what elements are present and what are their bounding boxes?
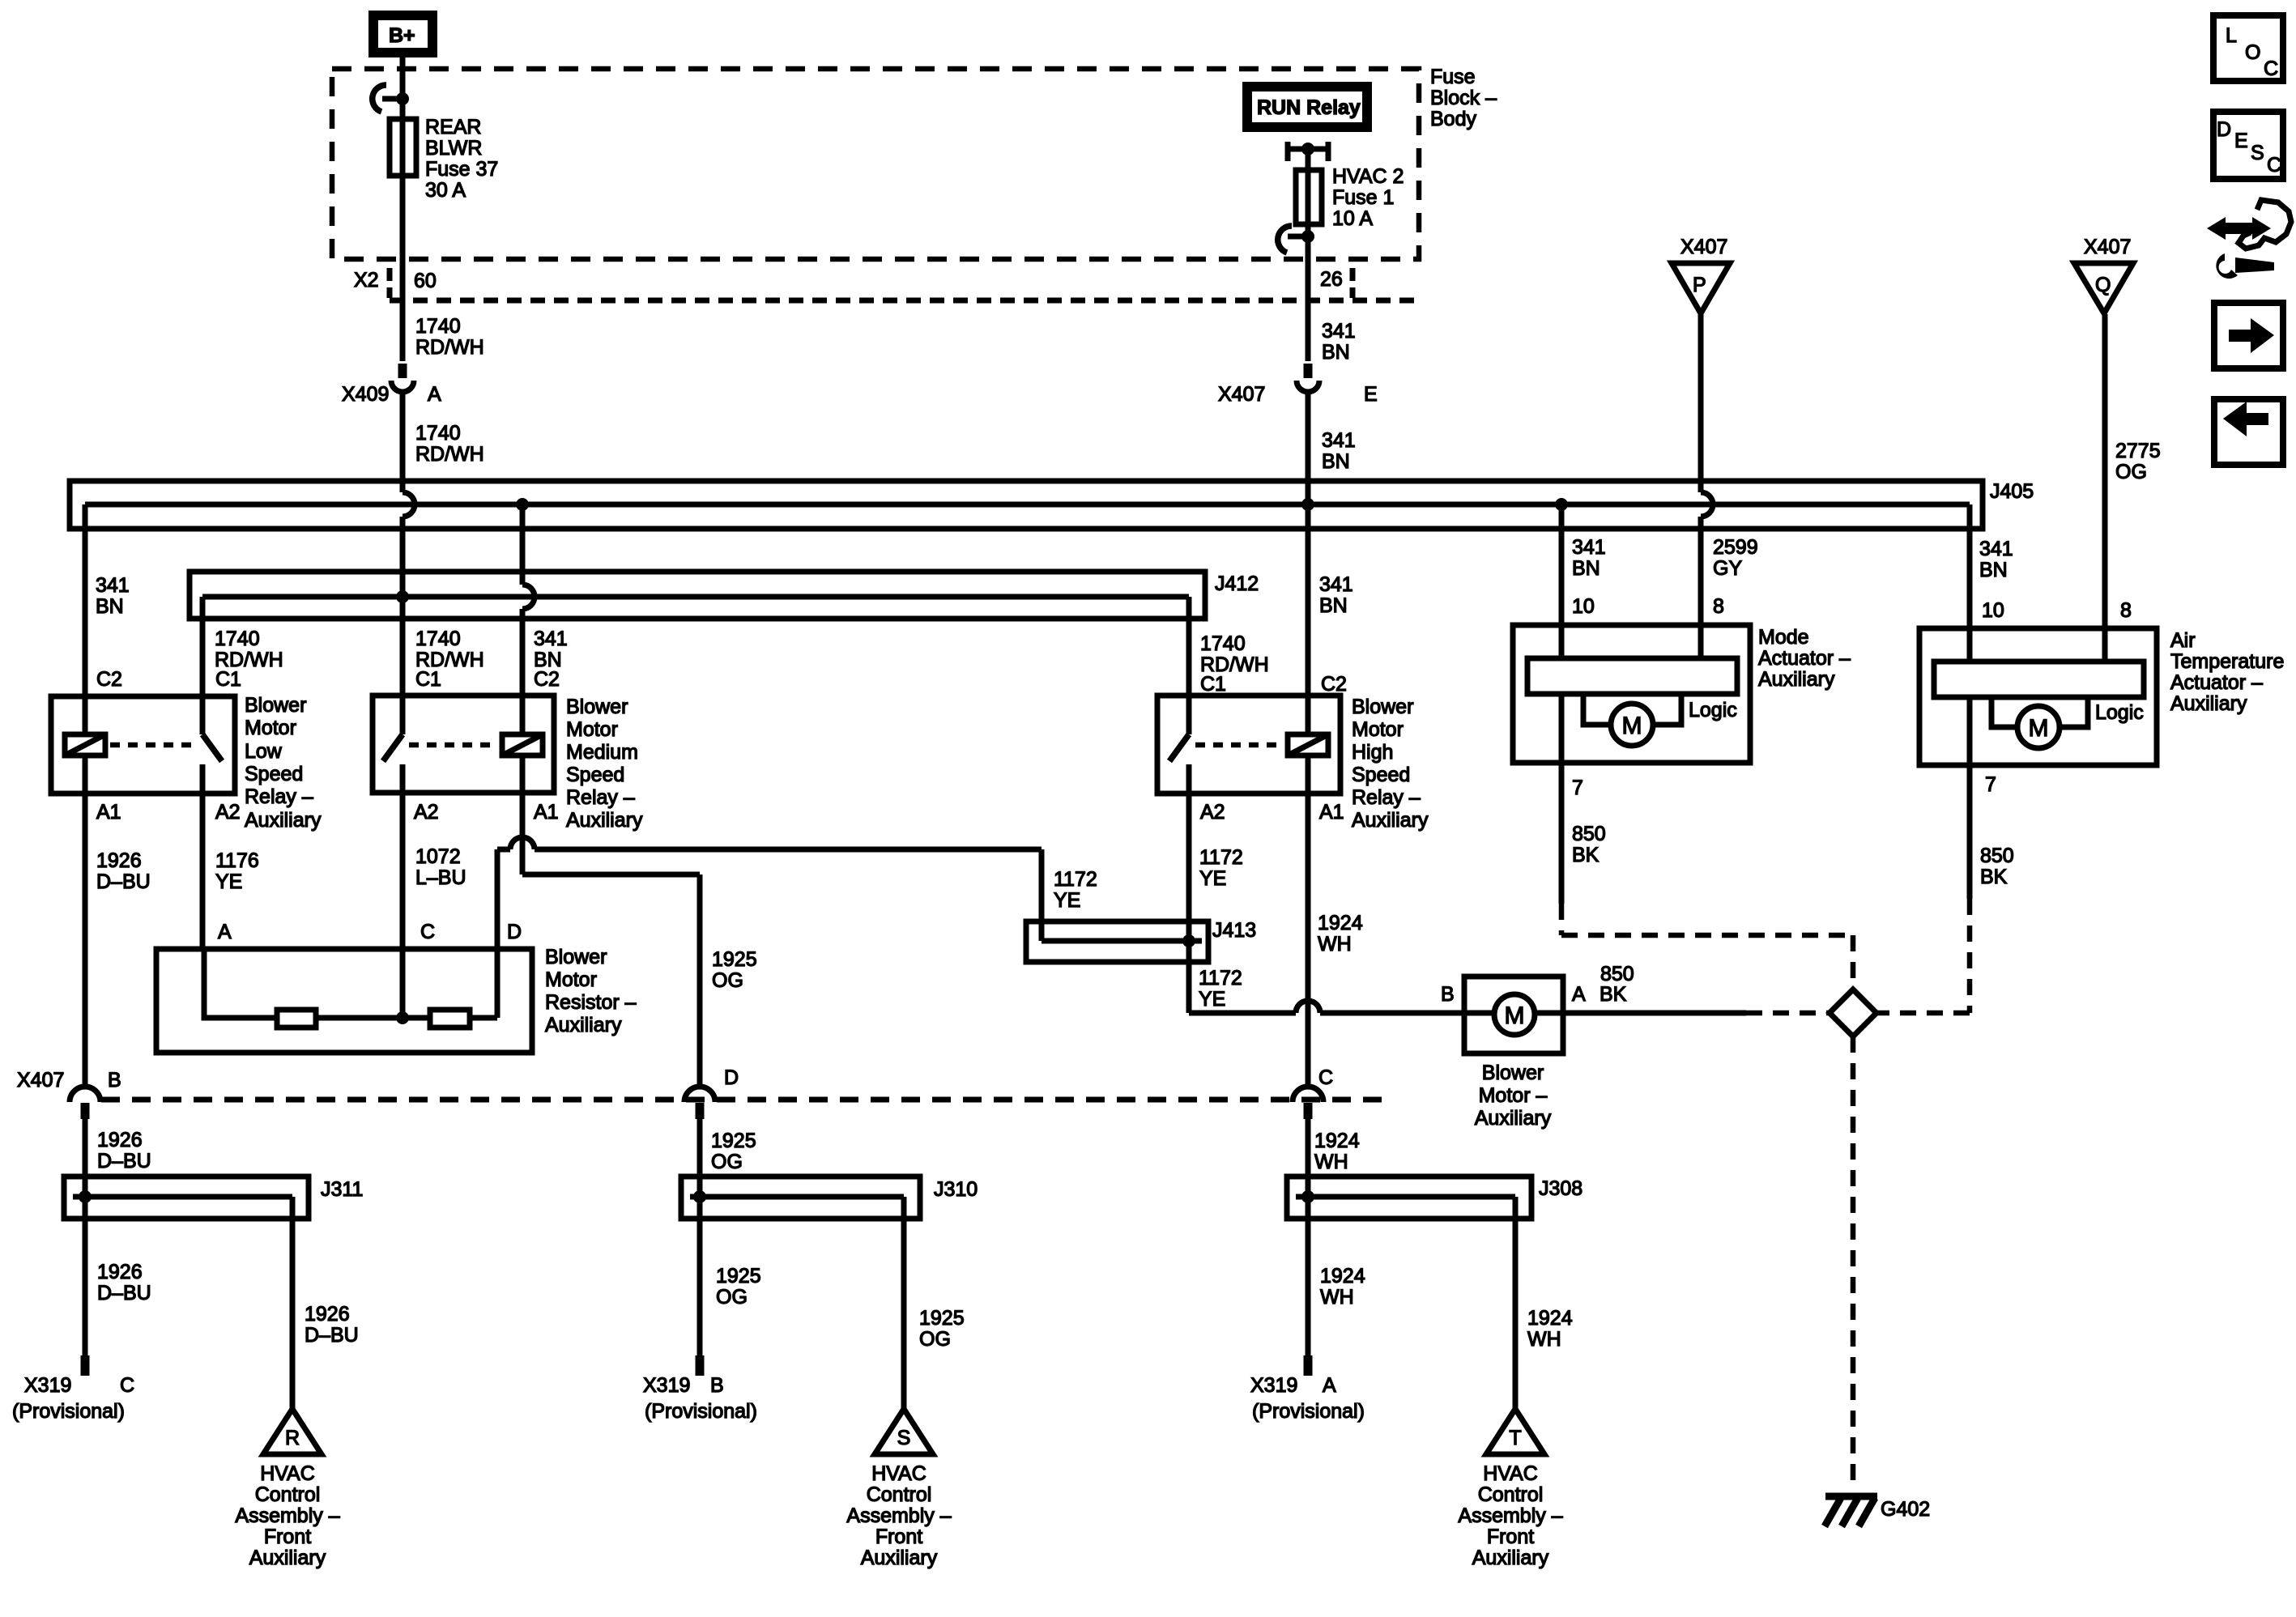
svg-text:C2: C2 xyxy=(1321,673,1347,696)
svg-text:A2: A2 xyxy=(414,801,439,823)
svg-text:Motor: Motor xyxy=(545,968,597,991)
svg-text:M: M xyxy=(2029,715,2049,742)
svg-text:J308: J308 xyxy=(1539,1177,1582,1200)
svg-text:Fuse 37: Fuse 37 xyxy=(425,158,498,181)
svg-text:J310: J310 xyxy=(934,1178,978,1201)
svg-text:Assembly –: Assembly – xyxy=(846,1504,951,1527)
svg-text:C: C xyxy=(420,921,435,943)
svg-text:RD/WH: RD/WH xyxy=(415,443,484,466)
svg-text:RD/WH: RD/WH xyxy=(415,336,484,359)
svg-text:B: B xyxy=(710,1374,724,1397)
svg-text:341: 341 xyxy=(1979,538,2013,560)
svg-text:M: M xyxy=(1505,1002,1525,1029)
svg-text:341: 341 xyxy=(1322,320,1356,343)
svg-text:341: 341 xyxy=(1572,536,1606,559)
svg-text:C: C xyxy=(120,1374,134,1397)
svg-text:B: B xyxy=(1441,983,1455,1006)
svg-text:Front: Front xyxy=(264,1526,311,1548)
svg-text:D: D xyxy=(724,1066,739,1089)
svg-text:1072: 1072 xyxy=(415,845,461,868)
svg-text:8: 8 xyxy=(1713,595,1724,618)
svg-text:Resistor –: Resistor – xyxy=(545,991,637,1014)
svg-text:R: R xyxy=(285,1427,300,1449)
svg-text:X409: X409 xyxy=(342,383,389,406)
svg-text:C1: C1 xyxy=(215,668,241,691)
svg-text:C1: C1 xyxy=(1200,673,1226,696)
svg-text:Temperature: Temperature xyxy=(2170,650,2284,673)
svg-text:S: S xyxy=(897,1427,911,1449)
svg-text:10 A: 10 A xyxy=(1332,207,1373,230)
svg-text:P: P xyxy=(1693,274,1706,296)
svg-text:O: O xyxy=(2245,41,2260,64)
svg-text:HVAC: HVAC xyxy=(1483,1462,1538,1485)
svg-text:YE: YE xyxy=(1054,889,1080,912)
svg-text:10: 10 xyxy=(1572,595,1595,618)
svg-text:850: 850 xyxy=(1980,845,2014,867)
svg-text:BN: BN xyxy=(1979,559,2008,581)
svg-text:C2: C2 xyxy=(96,668,122,691)
svg-text:341: 341 xyxy=(96,574,130,597)
svg-text:Blower: Blower xyxy=(1482,1062,1544,1084)
svg-text:8: 8 xyxy=(2120,599,2132,622)
svg-text:C2: C2 xyxy=(534,668,560,691)
svg-text:BN: BN xyxy=(1322,341,1350,364)
svg-text:A1: A1 xyxy=(534,801,559,823)
svg-text:Assembly –: Assembly – xyxy=(1458,1504,1562,1527)
svg-text:Assembly –: Assembly – xyxy=(235,1504,339,1527)
svg-text:341: 341 xyxy=(1319,573,1353,596)
svg-text:C: C xyxy=(2267,154,2281,177)
svg-text:26: 26 xyxy=(1320,268,1343,291)
svg-text:A: A xyxy=(1572,983,1586,1006)
svg-text:Motor: Motor xyxy=(245,717,296,739)
svg-text:850: 850 xyxy=(1600,963,1634,985)
svg-text:1740: 1740 xyxy=(1200,632,1246,655)
svg-text:Auxiliary: Auxiliary xyxy=(1352,809,1429,832)
svg-text:Fuse: Fuse xyxy=(1430,66,1476,88)
svg-text:1924: 1924 xyxy=(1314,1130,1360,1152)
svg-text:D–BU: D–BU xyxy=(97,1282,151,1304)
svg-text:Block –: Block – xyxy=(1430,87,1497,109)
svg-text:Control: Control xyxy=(1478,1483,1544,1506)
svg-text:D: D xyxy=(507,921,522,943)
svg-text:Auxiliary: Auxiliary xyxy=(1472,1547,1549,1569)
svg-text:1924: 1924 xyxy=(1318,912,1363,934)
svg-text:X319: X319 xyxy=(24,1374,71,1397)
svg-text:341: 341 xyxy=(534,628,568,650)
svg-text:High: High xyxy=(1352,741,1393,764)
svg-text:30 A: 30 A xyxy=(425,179,466,202)
svg-text:1172: 1172 xyxy=(1199,967,1242,989)
svg-text:Auxiliary: Auxiliary xyxy=(545,1014,622,1036)
svg-text:OG: OG xyxy=(712,969,743,992)
svg-text:BK: BK xyxy=(1980,866,2008,888)
svg-text:7: 7 xyxy=(1985,773,1996,796)
svg-text:X407: X407 xyxy=(2084,236,2131,258)
svg-text:BN: BN xyxy=(1319,594,1348,617)
svg-text:B+: B+ xyxy=(389,24,415,47)
svg-text:HVAC: HVAC xyxy=(260,1462,315,1485)
svg-text:A: A xyxy=(1323,1374,1336,1397)
svg-text:WH: WH xyxy=(1318,933,1352,955)
svg-text:1172: 1172 xyxy=(1054,868,1097,891)
svg-text:Auxiliary: Auxiliary xyxy=(1475,1107,1552,1130)
svg-text:M: M xyxy=(1622,713,1642,739)
svg-text:1925: 1925 xyxy=(716,1265,761,1287)
svg-text:RUN Relay: RUN Relay xyxy=(1257,96,1361,119)
svg-text:Auxiliary: Auxiliary xyxy=(861,1547,938,1569)
svg-text:1924: 1924 xyxy=(1320,1265,1365,1287)
svg-text:A: A xyxy=(428,383,441,406)
svg-text:Auxiliary: Auxiliary xyxy=(566,809,643,832)
svg-text:OG: OG xyxy=(2115,461,2147,483)
svg-text:Speed: Speed xyxy=(245,763,303,785)
svg-text:1172: 1172 xyxy=(1199,846,1243,869)
svg-text:E: E xyxy=(2234,130,2248,152)
svg-text:Medium: Medium xyxy=(566,741,638,764)
svg-text:(Provisional): (Provisional) xyxy=(1252,1400,1365,1423)
svg-text:Motor: Motor xyxy=(566,718,618,741)
svg-text:BK: BK xyxy=(1600,983,1627,1006)
svg-text:Actuator –: Actuator – xyxy=(1758,647,1851,670)
svg-text:YE: YE xyxy=(1199,867,1226,890)
svg-text:YE: YE xyxy=(1199,988,1225,1011)
svg-text:Actuator –: Actuator – xyxy=(2170,671,2263,694)
svg-text:HVAC: HVAC xyxy=(871,1462,926,1485)
svg-text:WH: WH xyxy=(1527,1328,1561,1351)
svg-text:1740: 1740 xyxy=(415,628,461,650)
svg-text:C1: C1 xyxy=(415,668,441,691)
svg-text:A2: A2 xyxy=(215,801,241,823)
svg-text:341: 341 xyxy=(1322,429,1356,452)
svg-text:1926: 1926 xyxy=(97,1261,143,1283)
svg-text:(Provisional): (Provisional) xyxy=(645,1400,757,1423)
svg-text:BN: BN xyxy=(1572,557,1600,580)
svg-text:Logic: Logic xyxy=(2095,701,2144,724)
svg-text:Relay –: Relay – xyxy=(566,786,635,809)
svg-text:Fuse 1: Fuse 1 xyxy=(1332,186,1394,209)
svg-text:T: T xyxy=(1509,1427,1521,1449)
svg-text:B: B xyxy=(108,1069,121,1091)
svg-text:1925: 1925 xyxy=(919,1307,965,1330)
svg-text:Control: Control xyxy=(867,1483,932,1506)
svg-text:Speed: Speed xyxy=(1352,764,1410,786)
svg-text:C: C xyxy=(1318,1066,1333,1089)
svg-text:D: D xyxy=(2217,118,2231,141)
svg-text:Relay –: Relay – xyxy=(1352,786,1421,809)
svg-text:A: A xyxy=(218,921,232,943)
svg-text:Blower: Blower xyxy=(1352,696,1413,718)
svg-text:BLWR: BLWR xyxy=(425,137,482,160)
svg-text:Blower: Blower xyxy=(566,696,628,718)
svg-text:60: 60 xyxy=(414,270,437,292)
svg-text:Speed: Speed xyxy=(566,764,624,786)
svg-text:Front: Front xyxy=(875,1526,922,1548)
svg-text:1926: 1926 xyxy=(96,849,142,872)
svg-text:Logic: Logic xyxy=(1689,699,1737,721)
svg-text:C: C xyxy=(2264,57,2278,80)
svg-text:(Provisional): (Provisional) xyxy=(12,1400,125,1423)
svg-text:BN: BN xyxy=(1322,450,1350,473)
svg-text:Auxiliary: Auxiliary xyxy=(1758,668,1835,691)
svg-text:1924: 1924 xyxy=(1527,1307,1573,1330)
svg-text:X319: X319 xyxy=(1250,1374,1297,1397)
svg-text:Auxiliary: Auxiliary xyxy=(249,1547,326,1569)
svg-text:D–BU: D–BU xyxy=(97,1150,151,1172)
svg-text:J412: J412 xyxy=(1215,572,1259,595)
svg-text:1740: 1740 xyxy=(415,315,461,338)
svg-text:E: E xyxy=(1364,383,1378,406)
svg-text:X407: X407 xyxy=(17,1069,64,1091)
svg-text:1176: 1176 xyxy=(215,849,259,872)
svg-text:A1: A1 xyxy=(96,801,121,823)
svg-text:D–BU: D–BU xyxy=(96,870,151,893)
svg-text:WH: WH xyxy=(1314,1151,1348,1173)
svg-text:Auxiliary: Auxiliary xyxy=(245,809,322,832)
svg-text:850: 850 xyxy=(1572,823,1606,845)
svg-text:HVAC 2: HVAC 2 xyxy=(1332,165,1404,188)
svg-text:GY: GY xyxy=(1713,557,1742,580)
svg-text:D–BU: D–BU xyxy=(305,1324,359,1347)
svg-text:X2: X2 xyxy=(354,269,379,291)
svg-text:WH: WH xyxy=(1320,1286,1354,1308)
svg-text:A1: A1 xyxy=(1319,801,1344,823)
svg-text:OG: OG xyxy=(716,1286,748,1308)
svg-text:1740: 1740 xyxy=(215,628,260,650)
svg-text:7: 7 xyxy=(1572,777,1583,799)
svg-text:Blower: Blower xyxy=(545,946,607,968)
svg-text:L: L xyxy=(2226,24,2237,47)
svg-text:Motor –: Motor – xyxy=(1479,1084,1548,1107)
svg-text:2775: 2775 xyxy=(2115,440,2161,462)
svg-text:Front: Front xyxy=(1487,1526,1534,1548)
svg-text:YE: YE xyxy=(215,870,242,893)
svg-text:J405: J405 xyxy=(1990,480,2034,503)
svg-text:1926: 1926 xyxy=(305,1303,350,1326)
svg-text:J413: J413 xyxy=(1212,919,1256,942)
svg-text:L–BU: L–BU xyxy=(415,866,466,889)
svg-text:Blower: Blower xyxy=(245,694,306,717)
svg-text:Low: Low xyxy=(245,740,283,763)
svg-text:2599: 2599 xyxy=(1713,536,1758,559)
svg-text:X319: X319 xyxy=(643,1374,690,1397)
svg-text:Q: Q xyxy=(2095,274,2111,296)
svg-text:OG: OG xyxy=(919,1328,951,1351)
svg-text:X407: X407 xyxy=(1680,236,1727,258)
svg-text:BK: BK xyxy=(1572,844,1600,866)
svg-text:J311: J311 xyxy=(321,1178,363,1201)
svg-text:A2: A2 xyxy=(1200,801,1225,823)
svg-text:Mode: Mode xyxy=(1758,626,1809,649)
svg-text:Motor: Motor xyxy=(1352,718,1404,741)
svg-text:S: S xyxy=(2251,142,2264,164)
svg-text:Auxiliary: Auxiliary xyxy=(2170,692,2247,715)
svg-text:1926: 1926 xyxy=(97,1129,143,1151)
svg-text:OG: OG xyxy=(711,1151,743,1173)
svg-text:Body: Body xyxy=(1430,108,1476,130)
svg-text:Relay –: Relay – xyxy=(245,785,313,808)
svg-text:BN: BN xyxy=(96,595,124,618)
svg-text:Air: Air xyxy=(2170,629,2196,652)
svg-text:1925: 1925 xyxy=(711,1130,756,1152)
svg-text:1740: 1740 xyxy=(415,422,461,445)
svg-text:X407: X407 xyxy=(1218,383,1265,406)
svg-text:Control: Control xyxy=(255,1483,321,1506)
svg-text:G402: G402 xyxy=(1881,1498,1930,1521)
svg-text:REAR: REAR xyxy=(425,116,481,138)
svg-text:1925: 1925 xyxy=(712,948,757,971)
svg-text:10: 10 xyxy=(1982,599,2004,622)
